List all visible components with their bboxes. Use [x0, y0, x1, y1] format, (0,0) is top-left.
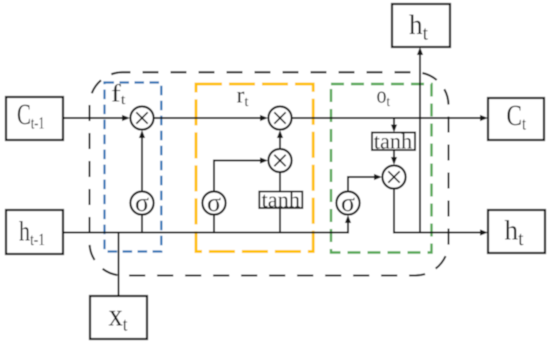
svg-text:σ: σ: [207, 188, 221, 217]
svg-text:σ: σ: [135, 188, 149, 217]
svg-text:tanh: tanh: [374, 128, 413, 153]
svg-text:tanh: tanh: [262, 187, 301, 212]
svg-text:σ: σ: [341, 188, 355, 217]
